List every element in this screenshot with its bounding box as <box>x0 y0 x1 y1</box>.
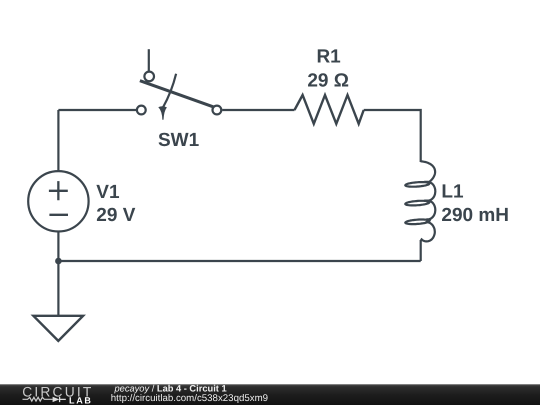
svg-text:290 mH: 290 mH <box>441 205 509 226</box>
voltage source V1 circle <box>28 171 88 231</box>
svg-text:29 V: 29 V <box>96 205 135 226</box>
svg-text:pecayoy / Lab 4 - Circuit 1: pecayoy / Lab 4 - Circuit 1 <box>114 383 227 393</box>
svg-text:R1: R1 <box>316 46 341 67</box>
V1 minus sign <box>49 214 68 216</box>
resistor R1 zigzag <box>295 95 364 124</box>
logo diode <box>53 397 60 402</box>
ground symbol <box>33 316 83 341</box>
wire top rail to SW1 left terminal <box>58 109 136 111</box>
switch SW1 blade <box>140 81 215 108</box>
logo resistor zigzag <box>23 397 53 401</box>
bottom rail wire <box>58 260 420 262</box>
switch SW1 actuation arrow curve <box>163 74 176 108</box>
svg-text:LAB: LAB <box>69 395 93 405</box>
switch SW1 arrowhead <box>158 106 167 120</box>
switch SW1 top stub wire <box>148 49 150 71</box>
watermark bar <box>0 384 540 405</box>
wire SW1 right terminal to R1 <box>222 109 294 111</box>
svg-text:L1: L1 <box>441 181 464 202</box>
inductor L1 coil <box>405 161 435 241</box>
svg-text:http://circuitlab.com/c538x23q: http://circuitlab.com/c538x23qd5xm9 <box>111 393 268 404</box>
junction node dot <box>55 258 62 265</box>
wire left vertical top (V1 top to top rail) <box>57 110 59 172</box>
svg-text:29 Ω: 29 Ω <box>307 70 349 91</box>
switch SW1 right terminal circle <box>213 106 222 115</box>
svg-text:V1: V1 <box>96 182 120 203</box>
switch SW1 throw terminal circle <box>144 72 154 82</box>
wire L1 bottom to bottom rail <box>420 240 422 261</box>
svg-text:SW1: SW1 <box>158 130 200 151</box>
V1 plus sign <box>49 181 68 200</box>
wire V1 bottom to junction to ground <box>57 232 59 316</box>
switch SW1 left terminal circle <box>137 106 146 115</box>
wire R1 to top-right corner, down to L1 <box>364 110 421 162</box>
